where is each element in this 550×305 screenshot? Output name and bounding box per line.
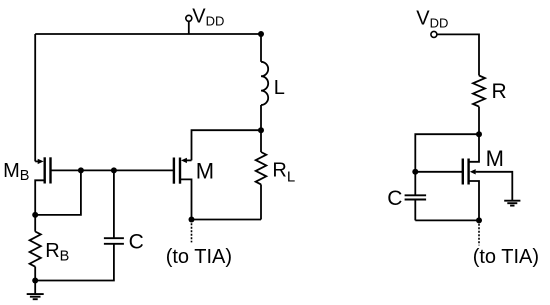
wire inductor top lead <box>260 34 262 62</box>
wire bottom rail right <box>415 219 479 221</box>
svg-text:M: M <box>486 146 504 171</box>
VDD terminal circle (right) <box>431 31 437 37</box>
wire source rail to RL <box>192 219 262 221</box>
wire inductor bottom lead <box>260 105 262 130</box>
svg-text:(to TIA): (to TIA) <box>473 246 539 268</box>
wire C bottom lead <box>35 244 114 281</box>
transistor MB gate plate <box>49 157 51 183</box>
VDD terminal stub (left) <box>188 21 190 34</box>
resistor RL <box>256 152 267 184</box>
node dot gate loop <box>78 167 84 173</box>
inductor L coil <box>261 62 268 105</box>
capacitor C right plates <box>405 194 427 196</box>
wire M drain up and right <box>192 130 262 160</box>
dashed line to TIA right <box>478 224 480 246</box>
wire diode loop MB <box>35 170 81 215</box>
wire gate line MB to M <box>51 169 174 171</box>
resistor RB <box>30 232 41 267</box>
node dot gate C junction <box>412 169 418 175</box>
node dot M source <box>189 217 195 223</box>
transistor M right gate plate <box>462 159 464 185</box>
node dot source right <box>476 217 482 223</box>
transistor M channel <box>179 158 181 184</box>
VDD terminal circle (left) <box>186 15 192 21</box>
capacitor C left plates <box>104 237 124 239</box>
dashed line to TIA left <box>191 223 193 242</box>
wire VDD right to R <box>437 34 479 75</box>
node dot RB bottom <box>32 278 38 284</box>
svg-text:M: M <box>196 158 214 183</box>
svg-text:C: C <box>387 187 402 210</box>
transistor M right body lead with arrow <box>476 172 513 200</box>
ground symbol left <box>27 293 44 295</box>
transistor M right channel <box>467 159 469 185</box>
transistor MB top lead with arrow <box>35 160 38 162</box>
node dot drain RL L junction <box>258 127 264 133</box>
wire drain node to left branch <box>415 134 479 172</box>
transistor MB bottom lead <box>35 180 45 231</box>
wire RB bottom to ground <box>34 267 36 294</box>
transistor M top lead with arrow <box>186 159 192 161</box>
wire RL bottom lead <box>260 184 262 219</box>
node dot drain right <box>476 131 482 137</box>
transistor M right drain lead <box>469 134 479 162</box>
transistor M bottom lead <box>180 179 192 219</box>
wire C top lead <box>113 170 115 238</box>
ground symbol right <box>504 200 520 202</box>
wire gate lead right M <box>415 171 463 173</box>
wire R bottom to drain node <box>478 107 480 135</box>
transistor MB channel <box>44 157 46 183</box>
svg-text:C: C <box>129 230 144 253</box>
svg-text:(to TIA): (to TIA) <box>166 246 232 268</box>
node dot MB source <box>32 212 38 218</box>
wire left vertical VDD to MB <box>34 34 36 161</box>
wire C right bottom lead <box>414 200 416 221</box>
transistor M right source lead <box>469 181 479 220</box>
svg-text:R: R <box>492 80 507 103</box>
node dot top rail inductor <box>258 31 264 37</box>
wire C right top lead <box>414 172 416 196</box>
wire top rail left circuit <box>35 33 261 35</box>
svg-text:L: L <box>274 77 285 99</box>
transistor M gate plate <box>173 158 175 184</box>
node dot C gate line <box>111 167 117 173</box>
resistor R <box>473 76 485 107</box>
wire RL top lead <box>260 130 262 152</box>
